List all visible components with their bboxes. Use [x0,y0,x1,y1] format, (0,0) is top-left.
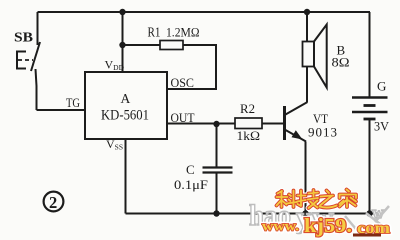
svg-text:R2: R2 [240,101,255,116]
watermark url kj59 [262,215,391,237]
svg-text:R1: R1 [148,25,161,40]
svg-text:KD-5601: KD-5601 [101,108,149,124]
transistor emitter arrow [292,130,303,139]
figure number 2 circled [44,192,64,212]
svg-text:G: G [377,79,386,94]
capacitor C [203,168,233,173]
wire R1 left lead [123,44,161,46]
watermark CJK line1 science-home [277,190,357,209]
svg-text:9013: 9013 [308,125,337,140]
node bottom battery [366,210,372,216]
transistor Q1 VT 9013 [285,102,308,142]
svg-text:C: C [186,162,195,177]
svg-text:OUT: OUT [171,111,195,125]
wire SB lower lead [36,69,37,110]
watermark grey diagonal strokes [345,206,389,235]
wire SB upper lead [37,12,39,45]
watermark grey letters [249,199,385,234]
wire top rail [38,11,371,13]
node bottom emitter [302,210,308,216]
node VDD top [119,9,125,15]
svg-text:kj59.: kj59. [304,215,352,237]
wire capacitor top lead [216,124,218,168]
svg-text:1.2MΩ: 1.2MΩ [166,26,200,40]
wire VDD vertical [122,12,124,72]
svg-text:SB: SB [14,31,33,46]
IC U1 A KD-5601 [85,72,167,139]
wire bottom rail [126,213,379,215]
wire battery top lead [369,12,371,98]
wire emitter vertical [305,142,307,214]
resistor R2 [235,118,262,129]
svg-text:A: A [121,91,131,106]
wire R2 to base [262,123,284,125]
wire TG net [37,109,86,111]
svg-text:www.: www. [262,220,299,235]
svg-text:TG: TG [66,95,80,110]
wire battery bottom lead [369,119,371,214]
node speaker top [304,9,310,15]
switch SB [16,42,40,71]
svg-text:3V: 3V [374,119,390,134]
watermark red underline [353,234,381,237]
svg-text:8Ω: 8Ω [332,55,350,70]
svg-text:2: 2 [49,193,57,212]
wire speaker bottom lead to collector [306,67,308,103]
svg-text:0.1μF: 0.1μF [174,177,208,192]
svg-text:1kΩ: 1kΩ [237,128,261,143]
resistor R1 [160,41,183,50]
node R1 tee [119,42,125,48]
wire VSS vertical [125,139,127,214]
wire speaker top lead [306,12,308,42]
svg-text:OSC: OSC [171,76,195,90]
node OUT junction [213,121,219,127]
speaker B [303,25,327,88]
wire R1 right lead to OSC [167,45,216,89]
battery G [352,98,388,120]
wire capacitor bottom lead [216,173,218,214]
wire OUT net [167,123,235,125]
node bottom capacitor [213,210,219,216]
